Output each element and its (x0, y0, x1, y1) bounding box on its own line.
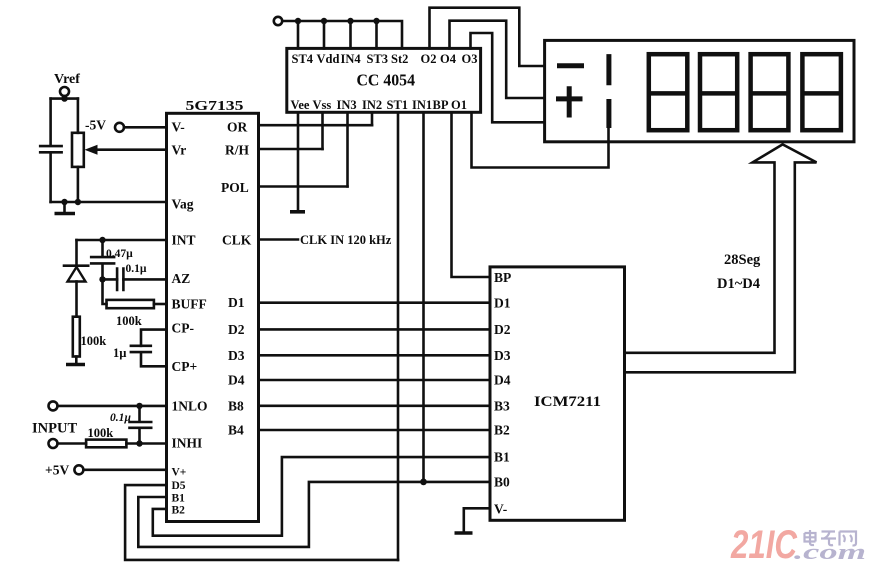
display half digit 1 segments (606, 54, 611, 128)
display module box (545, 40, 854, 141)
svg-text:B3: B3 (494, 398, 510, 413)
svg-text:D5: D5 (172, 480, 186, 492)
wire CP- branch (141, 330, 167, 346)
wire IN2 down (371, 112, 374, 125)
svg-text:ST4: ST4 (292, 52, 314, 66)
svg-text:Vss: Vss (313, 98, 332, 112)
svg-text:D4: D4 (494, 373, 511, 388)
svg-text:CLK IN 120 kHz: CLK IN 120 kHz (300, 233, 392, 247)
svg-text:St2: St2 (391, 52, 408, 66)
svg-text:D1: D1 (494, 296, 511, 311)
resistor R1 100k vertical (73, 317, 80, 357)
node INHI junction (136, 440, 142, 446)
svg-text:B8: B8 (228, 398, 244, 413)
svg-text:D1: D1 (228, 295, 245, 310)
wire O2 to display (430, 8, 545, 66)
svg-text:ICM7211: ICM7211 (534, 394, 601, 410)
wire D3 (259, 354, 491, 357)
svg-text:D3: D3 (228, 348, 245, 363)
wire pin stubs ST4 Vdd IN4 ST3 (298, 21, 377, 48)
wire D4 (259, 379, 491, 382)
node INLO junction (136, 403, 142, 409)
svg-text:R/H: R/H (225, 143, 250, 158)
wire O3 to display (471, 33, 545, 122)
svg-text:Vdd: Vdd (317, 52, 340, 66)
logo dian zi wang (805, 530, 857, 546)
wire B4 to B2 (259, 429, 491, 432)
wire CLK stub (259, 238, 299, 241)
pin labels CC4054 top row (292, 52, 478, 66)
pin labels 5G7135 left (172, 120, 208, 451)
node pot bottom (75, 199, 81, 205)
svg-text:100k: 100k (116, 314, 142, 328)
capacitor C1 (40, 99, 61, 202)
node IN1-B0 junction (420, 479, 427, 486)
display digit 1 (649, 54, 688, 130)
terminal top strobe input (274, 17, 282, 25)
svg-text:POL: POL (221, 180, 249, 195)
svg-text:B2: B2 (172, 505, 186, 517)
svg-text:INHI: INHI (172, 436, 203, 451)
svg-text:INPUT: INPUT (32, 421, 77, 437)
svg-text:1µ: 1µ (113, 346, 126, 360)
wire POL to IN3 (259, 185, 348, 188)
svg-text:21IC: 21IC (730, 523, 798, 567)
node Vref junction (61, 95, 67, 101)
wire Vss down (321, 112, 324, 149)
display plus segment (556, 86, 583, 117)
wire ST1 vertical bus (397, 112, 400, 560)
node INT junction (99, 237, 105, 243)
svg-text:O2: O2 (421, 52, 437, 66)
svg-text:CC 4054: CC 4054 (357, 71, 416, 90)
svg-text:D2: D2 (228, 322, 245, 337)
svg-text:D1~D4: D1~D4 (717, 276, 760, 292)
wire B8 to B3 (259, 404, 491, 407)
svg-text:B1: B1 (494, 450, 510, 465)
svg-text:BP: BP (433, 98, 449, 112)
IC U2 CC4054 box (287, 48, 481, 112)
IC U1 5G7135 box (167, 113, 259, 521)
resistor R3 100k input (86, 440, 126, 448)
svg-text:Vag: Vag (172, 197, 194, 212)
svg-text:0.1µ: 0.1µ (126, 263, 147, 275)
display digit 4 (802, 54, 841, 130)
svg-text:V+: V+ (172, 467, 187, 479)
wire OR to IN2 (259, 124, 373, 127)
svg-text:28Seg: 28Seg (724, 252, 761, 268)
wire R/H to Vss (259, 148, 323, 151)
svg-text:100k: 100k (88, 426, 114, 440)
terminal Vref (60, 87, 69, 96)
wire IN1 vertical bus (422, 112, 425, 482)
terminal INLO (49, 401, 58, 410)
svg-text:O4: O4 (440, 52, 457, 66)
svg-text:AZ: AZ (172, 271, 191, 286)
wire -5V to V- (124, 126, 167, 129)
svg-text:INT: INT (172, 233, 196, 248)
capacitor C5 0.1u input (130, 406, 152, 444)
ground ICM V- (455, 531, 473, 535)
capacitor C4 1u (131, 346, 167, 367)
pin labels 5G7135 right (221, 120, 252, 438)
svg-text:IN3: IN3 (337, 98, 357, 112)
wire 5G B1 to ICM B0 (138, 482, 490, 547)
potentiometer RP1 (77, 99, 80, 202)
svg-text:CLK: CLK (222, 233, 252, 248)
svg-text:B0: B0 (494, 474, 510, 489)
svg-text:V-: V- (494, 502, 507, 517)
ground Vee (290, 210, 305, 214)
svg-text:ST3: ST3 (367, 52, 389, 66)
zener diode VD1 (64, 240, 88, 266)
wire Vref tee (51, 96, 78, 99)
svg-text:V-: V- (172, 120, 185, 135)
svg-text:Vee: Vee (291, 98, 310, 112)
wire 5G D5 to ST1 (125, 485, 398, 560)
svg-text:D3: D3 (494, 348, 511, 363)
display digit 3 (751, 54, 789, 130)
capacitor C3 0.1u (117, 269, 123, 291)
node ground tee (61, 199, 67, 205)
wire ICM V- to ground (464, 508, 490, 532)
svg-text:D2: D2 (494, 322, 511, 337)
svg-text:.com: .com (794, 539, 866, 564)
svg-text:0.1µ: 0.1µ (110, 412, 131, 424)
svg-text:IN4: IN4 (341, 52, 362, 66)
wire INT (77, 239, 167, 242)
svg-text:B4: B4 (228, 423, 244, 438)
IC U3 ICM7211 box (490, 267, 625, 520)
svg-text:+5V: +5V (45, 463, 69, 478)
svg-text:BP: BP (494, 270, 511, 285)
ground R1 (75, 357, 78, 364)
svg-text:B1: B1 (172, 493, 186, 505)
svg-text:B2: B2 (494, 423, 510, 438)
svg-text:O1: O1 (451, 98, 467, 112)
ground Vref rail (63, 202, 66, 213)
wire INHI right (126, 442, 166, 445)
svg-text:D4: D4 (228, 373, 245, 388)
svg-text:Vr: Vr (172, 143, 187, 158)
node AZ junction (99, 276, 105, 282)
node dots on top bus (295, 18, 380, 24)
wire Vag bottom rail (51, 201, 167, 204)
svg-text:O3: O3 (462, 52, 478, 66)
terminal +5V (74, 465, 83, 474)
svg-text:0.47µ: 0.47µ (106, 248, 133, 260)
capacitor C2 0.47u (91, 240, 114, 279)
wire INLO (58, 405, 167, 408)
terminal -5V (115, 123, 124, 132)
wire 5G B2 to ICM B1 (153, 457, 490, 536)
wire BP to ICM7211 (452, 112, 491, 277)
wire to BUFF resistor (103, 279, 107, 304)
display minus segment (557, 63, 584, 68)
svg-text:CP-: CP- (172, 321, 195, 336)
wire IN3 down (346, 112, 349, 186)
svg-text:ST1: ST1 (387, 98, 409, 112)
wire +5V to V+ (83, 468, 166, 471)
svg-text:1NLO: 1NLO (172, 399, 208, 414)
svg-text:100k: 100k (81, 334, 107, 348)
block arrow 28 segment bus from ICM7211 to display (625, 144, 817, 372)
wire D1 (259, 301, 491, 304)
wire INHI left (58, 442, 87, 445)
svg-text:Vref: Vref (54, 72, 80, 87)
svg-text:OR: OR (227, 120, 248, 135)
wire Vee to ground (297, 112, 300, 211)
svg-text:CP+: CP+ (172, 359, 198, 374)
display digit 2 (700, 54, 737, 130)
terminal INHI (49, 439, 58, 448)
svg-text:5G7135: 5G7135 (186, 98, 244, 113)
wire top bus to St2 (283, 21, 403, 48)
svg-text:-5V: -5V (85, 118, 106, 133)
svg-text:IN2: IN2 (362, 98, 382, 112)
pin labels 5G7135 bottom left (172, 467, 187, 517)
wire O4 to display (450, 21, 545, 98)
resistor R2 100k BUFF (107, 300, 154, 308)
pin labels ICM7211 left (494, 270, 511, 517)
svg-text:IN1: IN1 (412, 98, 432, 112)
wire O1 to display bottom (472, 112, 609, 167)
wire AZ branch (103, 278, 167, 281)
svg-text:BUFF: BUFF (172, 297, 207, 312)
wire D2 (259, 328, 491, 331)
pin labels CC4054 bottom row (291, 98, 467, 112)
wiper arrow to Vr (96, 148, 167, 151)
